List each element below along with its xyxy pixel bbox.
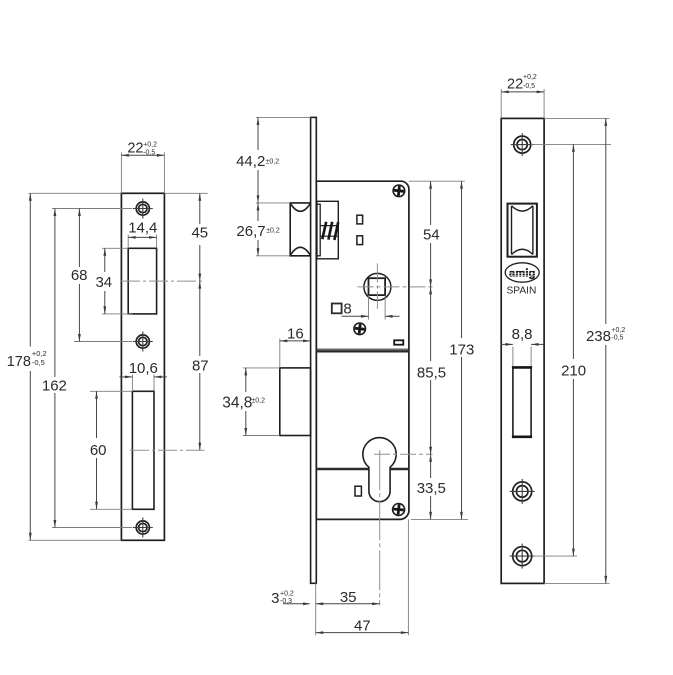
svg-text:±0,2: ±0,2 <box>266 158 280 165</box>
spring rails <box>321 226 338 237</box>
body right edge extension <box>407 519 409 635</box>
latch opening inner <box>512 206 533 255</box>
svg-text:35: 35 <box>340 589 357 606</box>
latch top extension <box>256 202 290 204</box>
svg-text:±0,2: ±0,2 <box>251 398 265 405</box>
dimension 33,5 <box>417 454 446 519</box>
svg-text:60: 60 <box>90 442 107 459</box>
amig logo <box>505 263 539 282</box>
dimension 45 <box>164 193 208 281</box>
dimension 22 (faceplate width) <box>501 74 544 118</box>
latch bolt <box>290 203 310 256</box>
latch opening outer <box>508 204 537 257</box>
lock body outline <box>316 181 409 519</box>
svg-text:173: 173 <box>449 341 474 358</box>
svg-text:-0,5: -0,5 <box>523 83 535 90</box>
svg-text:68: 68 <box>71 267 88 284</box>
latch bracket box <box>317 201 338 258</box>
dimension 173 <box>449 181 474 519</box>
svg-text:178: 178 <box>7 354 31 370</box>
svg-text:10,6: 10,6 <box>129 360 158 377</box>
strike plate outline <box>121 193 164 540</box>
dimension 210 <box>561 144 586 556</box>
body split line upper thick <box>316 350 409 352</box>
svg-text:3: 3 <box>271 590 279 607</box>
svg-text:8: 8 <box>343 300 351 317</box>
cylinder horizontal centerline <box>374 453 433 455</box>
small rect hole D <box>355 486 361 496</box>
body bottom extension <box>411 518 468 520</box>
svg-text:33,5: 33,5 <box>417 480 446 497</box>
dimension 34,8 <box>222 368 280 436</box>
svg-text:34,8: 34,8 <box>222 395 252 412</box>
strike plate latch cutout <box>128 248 156 314</box>
extension line S1 <box>52 208 132 210</box>
cylinder vertical centerline <box>379 450 381 605</box>
follower horizontal centerline <box>358 286 433 288</box>
SPAIN label <box>506 286 536 297</box>
dimension 8 leader <box>342 315 400 318</box>
svg-text:+0,2: +0,2 <box>32 349 47 358</box>
euro cylinder hole <box>363 438 396 502</box>
svg-text:16: 16 <box>287 325 304 342</box>
svg-text:54: 54 <box>423 227 440 244</box>
svg-text:22: 22 <box>127 141 143 157</box>
strike plate deadbolt cutout <box>132 391 154 509</box>
dimension 3 (faceplate thickness) <box>271 590 310 607</box>
svg-text:34: 34 <box>95 274 112 291</box>
dimension 68 <box>71 209 88 342</box>
follower square <box>369 278 386 295</box>
latch tail guide <box>317 204 320 256</box>
svg-text:45: 45 <box>191 225 208 242</box>
follower vertical centerline <box>376 263 378 308</box>
extension line S2 <box>74 341 132 343</box>
screw hole S1 <box>133 199 153 219</box>
faceplate bottom extension <box>315 583 317 635</box>
body top extension <box>409 180 465 182</box>
extension line bottom screw <box>533 555 577 557</box>
svg-text:-0,5: -0,5 <box>143 149 155 156</box>
svg-text:+0,2: +0,2 <box>143 142 157 149</box>
dimension 22 (left plate width) <box>121 141 164 194</box>
faceplate screw hole top <box>511 133 534 156</box>
faceplate bottom edge extension <box>544 582 609 584</box>
dimension 238 <box>586 118 625 583</box>
dimension 10,6 <box>119 360 166 392</box>
square symbol and 8 label <box>332 300 352 317</box>
extension line S3 <box>52 527 132 529</box>
cylinder mounting block <box>280 368 311 436</box>
faceplate strip <box>311 117 317 583</box>
small rect hole B <box>357 236 363 245</box>
faceplate outline <box>501 118 544 583</box>
svg-text:14,4: 14,4 <box>128 220 157 237</box>
square extension lines <box>369 295 386 319</box>
svg-text:+0,2: +0,2 <box>523 74 537 81</box>
svg-text:+0,2: +0,2 <box>280 590 294 597</box>
faceplate screw hole B2 <box>510 544 535 569</box>
svg-text:238: 238 <box>586 328 611 345</box>
svg-text:+0,2: +0,2 <box>611 327 625 334</box>
dimension 60 <box>90 391 133 509</box>
screw hole S2 <box>133 332 153 352</box>
svg-text:8,8: 8,8 <box>512 326 533 343</box>
dimension 26,7 <box>236 203 279 256</box>
dimension 54 <box>423 181 440 287</box>
svg-text:44,2: 44,2 <box>236 153 265 170</box>
extension line top screw <box>531 143 611 145</box>
dimension 87 <box>192 281 209 450</box>
deadbolt cutout centerline <box>130 449 205 451</box>
dimension 85,5 <box>416 287 447 454</box>
dimension 47 <box>316 617 409 634</box>
svg-text:-0,3: -0,3 <box>280 598 292 605</box>
svg-text:SPAIN: SPAIN <box>506 286 536 297</box>
svg-text:-0,5: -0,5 <box>32 358 45 367</box>
deadbolt opening <box>512 367 532 436</box>
screw M2 <box>354 323 366 335</box>
dimension 16 <box>280 325 311 368</box>
svg-text:22: 22 <box>507 76 523 92</box>
latch cutout centerline <box>121 280 205 282</box>
dimension 178 <box>7 193 122 540</box>
follower circle <box>364 273 391 300</box>
svg-text:±0,2: ±0,2 <box>266 227 280 234</box>
spring coils <box>322 222 338 240</box>
body split line lower <box>316 468 408 470</box>
svg-text:47: 47 <box>354 617 371 634</box>
small rect hole A <box>357 215 363 224</box>
dimension 8,8 <box>501 326 544 367</box>
faceplate screw hole B1 <box>510 479 535 504</box>
screw M3 <box>393 504 405 516</box>
faceplate top extension <box>544 117 609 119</box>
screw M1 <box>393 185 405 197</box>
latch bottom extension <box>256 255 290 257</box>
small rect hole C <box>394 340 403 344</box>
svg-text:162: 162 <box>42 378 67 395</box>
body split line upper thin <box>316 348 409 350</box>
dimension 35 <box>316 589 380 606</box>
dimension 34 <box>95 248 132 314</box>
dimension 44,2 <box>236 117 311 202</box>
dimension 162 <box>42 209 67 528</box>
screw hole S3 <box>133 518 153 538</box>
svg-text:-0,5: -0,5 <box>611 335 623 342</box>
svg-text:26,7: 26,7 <box>236 223 265 240</box>
svg-text:210: 210 <box>561 362 586 379</box>
svg-text:85,5: 85,5 <box>417 364 446 381</box>
dimension 14,4 <box>128 220 157 249</box>
svg-text:87: 87 <box>192 357 209 374</box>
